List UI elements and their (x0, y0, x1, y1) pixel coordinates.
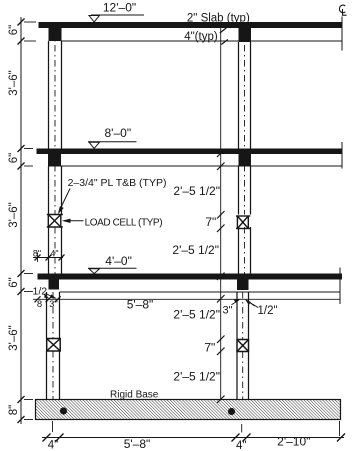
svg-text:2'–5 1/2": 2'–5 1/2" (173, 369, 220, 383)
dim above floor3 line (33, 257, 63, 259)
elevation marker 4ft (88, 254, 137, 274)
load cell right story2 (236, 216, 250, 229)
left column story3 (47, 292, 60, 400)
svg-text:3'–6": 3'–6" (8, 70, 20, 95)
bottom dimension line (42, 437, 344, 439)
left column story2 (49, 166, 62, 274)
right column story1 (239, 42, 251, 149)
left dim extension stubs (24, 22, 36, 420)
svg-text:2'–5 1/2": 2'–5 1/2" (172, 243, 219, 257)
svg-text:7": 7" (205, 215, 216, 229)
svg-text:2'–10": 2'–10" (277, 435, 310, 449)
svg-text:3'–6": 3'–6" (8, 202, 20, 227)
load cell leader arrow (62, 219, 84, 223)
floor1 soffit line (62, 40, 343, 42)
floor3 dim ticks left col (35, 296, 61, 302)
svg-text:1/2": 1/2" (258, 305, 278, 317)
left dim ticks (18, 19, 25, 424)
floor3 column stubs (49, 280, 60, 290)
right vertical dimension line (220, 27, 222, 400)
svg-text:Rigid Base: Rigid Base (110, 389, 159, 400)
load cell left story2 (47, 215, 63, 228)
svg-text:6": 6" (8, 25, 20, 35)
svg-text:8": 8" (8, 405, 20, 415)
svg-text:5'–8": 5'–8" (124, 437, 151, 451)
floor2 soffit line (61, 165, 342, 167)
floor3 dim line 5ft8 (33, 298, 340, 300)
svg-text:7": 7" (204, 340, 215, 354)
load cell right story3 (237, 340, 249, 352)
floor2 slab bar (37, 149, 343, 155)
symmetry centerline floor1 (341, 17, 343, 51)
svg-text:4"(typ): 4"(typ) (184, 31, 218, 43)
half inch left second arrowhead (44, 295, 50, 299)
half inch left leader (46, 294, 55, 298)
half inch left arrowhead (50, 294, 57, 298)
svg-text:4": 4" (50, 248, 58, 258)
floor1 column stubs (49, 28, 62, 41)
4in typ tick top (220, 28, 227, 33)
floor3 right converging arrow right (245, 299, 255, 306)
4in typ tick bottom (221, 40, 228, 45)
svg-text:5'–8": 5'–8" (127, 298, 154, 312)
rigid base slab (36, 400, 341, 420)
floor3 right converging arrow left (232, 299, 242, 305)
symmetry centerline floor3 (339, 268, 341, 305)
floor1 slab bar (39, 22, 343, 28)
svg-text:8: 8 (37, 299, 42, 310)
right column story3 (237, 292, 249, 400)
left column story1 (49, 41, 62, 149)
symmetry centerline floor2 (341, 142, 343, 169)
svg-text:LOAD CELL (TYP): LOAD CELL (TYP) (85, 217, 163, 228)
floor3 soffit line (60, 291, 340, 293)
svg-text:3": 3" (49, 299, 58, 310)
right column centerline (242, 30, 245, 433)
base anchor dot right (228, 408, 235, 415)
left column centerline (53, 30, 56, 432)
floor2 column stubs (48, 154, 61, 167)
svg-text:2'–5 1/2": 2'–5 1/2" (173, 184, 220, 198)
svg-text:2'–5 1/2": 2'–5 1/2" (173, 308, 220, 322)
svg-text:4": 4" (48, 440, 58, 451)
svg-text:6": 6" (8, 153, 20, 163)
bottom dim ticks (43, 434, 346, 442)
dim above floor3 extension (37, 253, 39, 263)
svg-text:4'–0": 4'–0" (105, 254, 132, 268)
elevation marker 8ft (88, 126, 137, 149)
half inch right leader (247, 301, 259, 308)
svg-text:6": 6" (8, 277, 20, 287)
svg-text:8": 8" (33, 248, 41, 258)
svg-text:8'–0": 8'–0" (105, 126, 132, 140)
svg-text:12'–0": 12'–0" (103, 1, 136, 15)
svg-text:4": 4" (236, 440, 246, 451)
base anchor dot left (60, 407, 67, 414)
elevation marker 12ft (89, 1, 144, 22)
svg-text:2" Slab (typ): 2" Slab (typ) (187, 13, 250, 25)
plate leader arrow (58, 189, 70, 215)
half inch left second leader (44, 295, 47, 298)
CL symbol top right (339, 5, 346, 15)
floor3 slab bar (38, 274, 343, 280)
svg-text:2–3/4" PL T&B (TYP): 2–3/4" PL T&B (TYP) (68, 177, 167, 189)
bottom extension line right end (339, 421, 341, 436)
load cell left story3 (47, 339, 61, 352)
left dimension chain line (20, 17, 22, 424)
svg-text:3'–6": 3'–6" (8, 325, 20, 350)
dim above floor3 ticks (35, 255, 65, 261)
svg-text:3": 3" (223, 305, 233, 317)
right column story2 (239, 166, 251, 274)
right dim ticks (217, 150, 225, 404)
